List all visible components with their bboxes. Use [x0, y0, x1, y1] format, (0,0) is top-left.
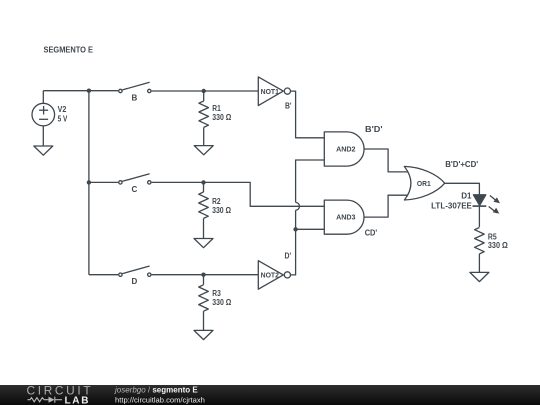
svg-text:D: D	[132, 277, 138, 286]
AND gate AND3	[324, 200, 364, 234]
wire LED to R5	[478, 206, 480, 227]
svg-text:AND3: AND3	[336, 215, 356, 222]
junction D' / AND3 input 2	[293, 227, 297, 231]
OR gate OR1	[404, 166, 444, 200]
junction at rail / C row	[87, 180, 91, 184]
ground under R2	[194, 239, 213, 248]
svg-text:CD': CD'	[365, 229, 378, 238]
wire D switch to NOT2	[152, 274, 259, 276]
svg-text:AND2: AND2	[336, 146, 356, 153]
svg-text:NOT1: NOT1	[261, 89, 279, 96]
junction B row / R1	[202, 89, 206, 93]
svg-text:R1: R1	[212, 104, 221, 113]
svg-text:V2: V2	[58, 105, 67, 114]
svg-text:B: B	[132, 94, 138, 103]
switch C	[119, 174, 151, 194]
inverter NOT1	[258, 77, 290, 106]
junction at rail top (node B row)	[87, 89, 91, 93]
footer bar	[0, 385, 540, 405]
svg-text:330 Ω: 330 Ω	[212, 113, 232, 122]
wire C switch to AND3 input 1	[152, 182, 325, 206]
junction D row / R3	[201, 273, 205, 277]
ground under R5	[470, 272, 489, 281]
wire NOT1 output to AND2 input 1	[291, 91, 325, 138]
svg-text:NOT2: NOT2	[261, 273, 279, 280]
ground under R3	[194, 330, 213, 339]
wire NOT2 output up to AND2 input 2 (with hop over C wire)	[291, 160, 325, 275]
wire OR1 output to LED D1	[445, 183, 480, 194]
svg-text:http://circuitlab.com/cjrtaxh: http://circuitlab.com/cjrtaxh	[115, 396, 205, 405]
resistor R3 330 Ω	[199, 275, 232, 331]
svg-text:D1: D1	[461, 192, 472, 201]
wire D' branch to AND3 input 2	[296, 228, 325, 230]
ground under V2	[34, 146, 53, 155]
wire rail to switch C	[89, 181, 118, 183]
junction C row / R2	[201, 180, 205, 184]
footer CircuitLab logo	[27, 384, 94, 405]
wire AND3 output to OR1 input 2	[364, 195, 409, 217]
AND gate AND2	[324, 132, 364, 166]
svg-text:SEGMENTO E: SEGMENTO E	[44, 45, 94, 55]
inverter NOT2	[258, 261, 290, 290]
ground under R1	[194, 146, 213, 155]
svg-text:R3: R3	[212, 289, 221, 298]
svg-text:C: C	[132, 185, 138, 194]
wire B row to NOT1	[152, 90, 259, 92]
svg-text:joserbgo / segmento E: joserbgo / segmento E	[114, 386, 198, 395]
switch D	[119, 266, 151, 286]
switch B	[119, 82, 151, 102]
svg-text:B'D': B'D'	[365, 125, 383, 134]
svg-text:5 V: 5 V	[58, 115, 68, 124]
wire AND2 output to OR1 input 1	[364, 149, 409, 172]
wire top from V2 to switch B	[43, 90, 118, 92]
svg-text:330 Ω: 330 Ω	[488, 241, 508, 250]
svg-text:330 Ω: 330 Ω	[212, 206, 232, 215]
svg-text:B'D'+CD': B'D'+CD'	[445, 160, 478, 169]
voltage source V2 5 V	[32, 91, 68, 146]
svg-text:R2: R2	[212, 197, 221, 206]
svg-text:330 Ω: 330 Ω	[212, 298, 232, 307]
wire left rail vertical	[88, 91, 90, 275]
svg-text:LAB: LAB	[65, 395, 91, 405]
svg-text:LTL-307EE: LTL-307EE	[431, 202, 472, 211]
svg-text:D': D'	[285, 251, 292, 260]
svg-text:OR1: OR1	[417, 181, 431, 188]
resistor R2 330 Ω	[199, 182, 232, 238]
resistor R5 330 Ω	[475, 228, 509, 273]
resistor R1 330 Ω	[199, 91, 232, 146]
svg-text:B': B'	[285, 101, 292, 110]
LED D1 LTL-307EE	[431, 192, 500, 214]
wire rail to switch D	[89, 274, 118, 276]
